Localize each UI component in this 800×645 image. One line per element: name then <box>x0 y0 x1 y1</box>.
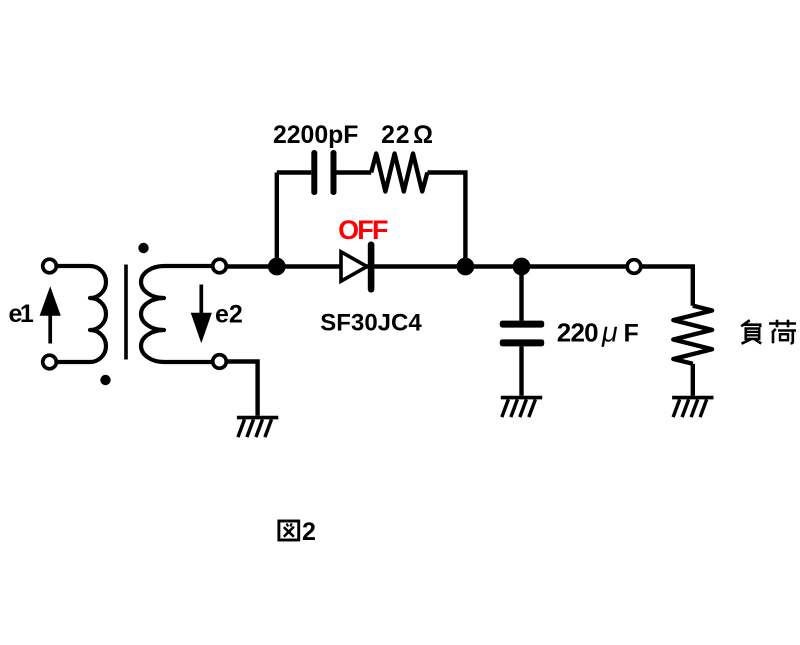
transformer T1 secondary winding <box>141 266 220 362</box>
ground (secondary) <box>237 418 278 438</box>
wire: snubber left riser <box>275 173 279 267</box>
svg-text:F: F <box>624 319 639 347</box>
label kanji FUKA (load) : character KA <box>769 320 796 344</box>
wire: capacitor C2 bottom lead <box>519 346 523 395</box>
terminal circle primary top <box>43 259 57 273</box>
terminal circle primary bottom <box>43 355 57 369</box>
resistor R1 22 ohm <box>371 154 427 192</box>
ground (C2) <box>501 398 542 418</box>
terminal circle secondary top <box>213 259 227 273</box>
wire: snubber top right segment and right riser <box>427 173 465 267</box>
node: junction left of diode <box>268 258 286 276</box>
figure label ZU (kanji) <box>279 521 299 540</box>
svg-text:OFF: OFF <box>338 215 388 245</box>
transformer T1 core <box>124 265 128 360</box>
diode D1 cathode bar <box>368 242 375 293</box>
terminal circle secondary bottom <box>213 355 227 369</box>
label kanji FUKA (load) : character FU <box>741 320 761 344</box>
wire: between C1 and R1 <box>337 170 372 174</box>
capacitor C2 220uF top plate <box>500 321 544 328</box>
capacitor C1 2200pF right plate <box>331 150 337 195</box>
wire: load bottom lead <box>691 364 695 396</box>
node: junction at capacitor C2 <box>513 258 531 276</box>
wire: main rail from secondary top terminal to load corner <box>220 267 693 306</box>
terminal circle output <box>627 260 641 274</box>
svg-text:22 Ω: 22 Ω <box>381 122 434 149</box>
ground (load) <box>672 398 713 418</box>
svg-text:SF30JC4: SF30JC4 <box>320 310 422 337</box>
transformer T1 primary winding <box>50 266 107 362</box>
wire: secondary bottom terminal to ground <box>220 362 258 416</box>
node: junction right of diode <box>457 258 475 276</box>
capacitor C2 220uF bottom plate <box>500 339 544 346</box>
polarity dot primary (bottom) <box>100 375 110 385</box>
arrow e1 (up) <box>40 286 61 343</box>
svg-text:220: 220 <box>557 318 598 348</box>
capacitor C1 2200pF left plate <box>311 150 317 195</box>
wire: snubber top left segment <box>277 170 312 174</box>
resistor R2 load (vertical) <box>673 306 712 364</box>
polarity dot secondary (top) <box>138 243 148 253</box>
svg-text:e2: e2 <box>215 301 243 329</box>
arrow e2 (down) <box>191 285 212 344</box>
svg-text:e1: e1 <box>9 300 34 328</box>
svg-text:2: 2 <box>302 518 316 546</box>
diode D1 triangle <box>341 252 367 281</box>
wire: capacitor C2 top lead <box>519 267 523 321</box>
svg-text:2200pF: 2200pF <box>273 122 358 149</box>
